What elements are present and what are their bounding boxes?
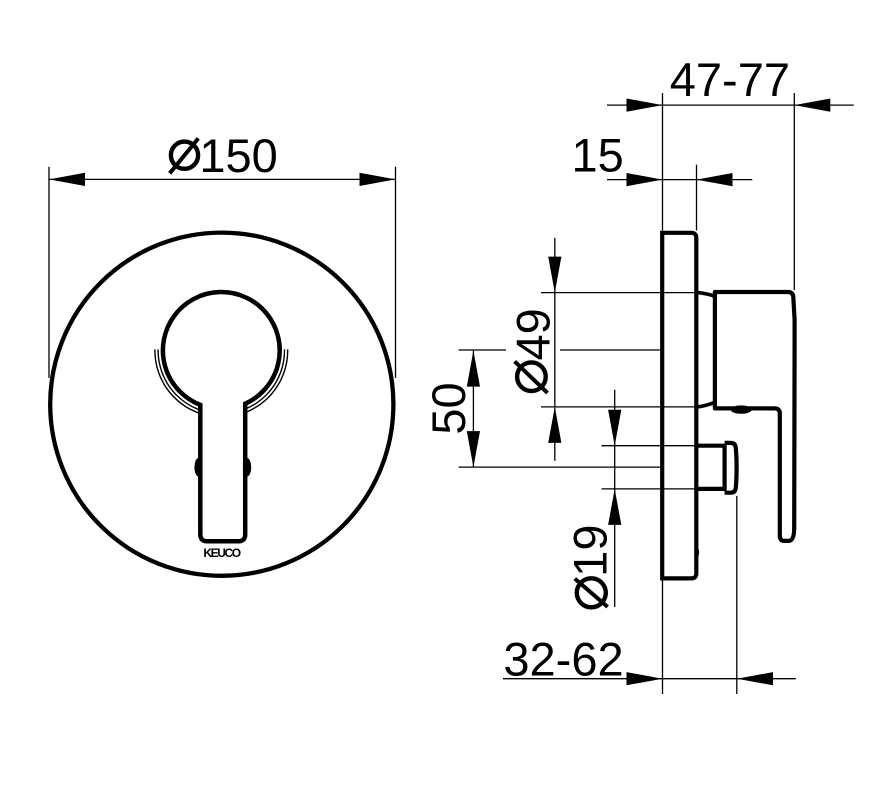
diameter symbol circle of D150 (171, 142, 198, 169)
dimension D150 extension line left (48, 167, 50, 378)
dimension 47-77 line (607, 104, 854, 106)
dimension 50 label text (422, 382, 475, 434)
extension line plate front face lower (662, 581, 664, 695)
extension line stem cap end (736, 496, 738, 694)
valve stem end cap (725, 443, 737, 493)
svg-text:32-62: 32-62 (503, 633, 623, 686)
svg-text:15: 15 (571, 128, 623, 181)
escutcheon plate circle (50, 233, 393, 576)
svg-text:47-77: 47-77 (670, 53, 790, 106)
lever grip side nub left (194, 458, 202, 476)
dimension 47-77 arrow right (794, 99, 830, 112)
dimension 15 line (607, 179, 752, 181)
wall plate side profile (662, 233, 696, 579)
lever hub and grip arm outline (715, 292, 795, 541)
extension line plate front face upper (662, 93, 664, 231)
lever grip side nub right (243, 458, 251, 476)
diameter symbol slash of D150 (170, 138, 199, 173)
dimension 32-62 line (503, 678, 796, 680)
extension line plate back face (696, 165, 698, 231)
plate edge clip nub (695, 548, 699, 558)
svg-text:19: 19 (564, 525, 617, 577)
dimension D150 extension line right (395, 167, 397, 378)
handle collar thin arc inner (158, 349, 284, 413)
sleeve bottom profile curve (697, 402, 715, 407)
valve stem axis line (459, 466, 662, 468)
valve stem body (696, 446, 725, 489)
diameter symbol slash of D49 (515, 361, 548, 393)
dimension 50 line (472, 351, 474, 468)
handle axis line (560, 349, 662, 351)
dimension D19 label text (564, 525, 617, 577)
dimension D150 arrow left (49, 173, 85, 186)
dimension 32-62 arrow left (627, 672, 663, 685)
dimension 15 arrow left (627, 173, 663, 186)
diameter symbol circle of D19 (577, 578, 606, 607)
dimension D150 arrow right (360, 173, 396, 186)
dimension 15 arrow right (697, 173, 733, 186)
dimension 50 arrow top (467, 351, 480, 387)
dimension D19 line (614, 390, 616, 607)
dimension D19 arrow bottom (608, 489, 621, 525)
dimension D49 arrow bottom (548, 407, 561, 443)
diameter symbol circle of D49 (517, 362, 546, 391)
dimension 47-77 arrow left (627, 99, 663, 112)
hub underside stop nub (731, 405, 752, 413)
dimension D49 line (554, 238, 556, 461)
handle collar thin arc outer (155, 349, 288, 417)
sleeve top profile curve (697, 293, 715, 297)
dimension D49 label text (507, 308, 560, 360)
diameter symbol slash of D19 (575, 579, 608, 607)
svg-text:KEUCO: KEUCO (203, 546, 240, 560)
handle axis tick (459, 349, 506, 351)
extension line sleeve bottom (541, 406, 697, 408)
lever handle keyhole outline (163, 292, 280, 541)
extension line sleeve top (541, 292, 697, 294)
svg-text:49: 49 (507, 308, 560, 360)
extension line stem bottom (602, 488, 723, 490)
dimension D150 line (49, 178, 396, 180)
svg-text:150: 150 (199, 129, 277, 182)
svg-text:50: 50 (422, 382, 475, 434)
dimension 50 arrow bottom (467, 431, 480, 467)
extension line lever back (793, 93, 795, 290)
dimension D19 arrow top (608, 410, 621, 446)
dimension D49 arrow top (548, 257, 561, 293)
extension line stem top (602, 445, 723, 447)
dimension 32-62 arrow right (737, 672, 773, 685)
